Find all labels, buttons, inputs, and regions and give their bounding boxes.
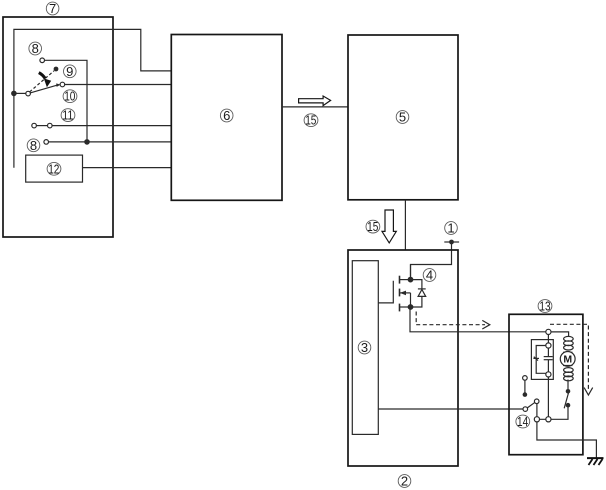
label 15 (down) (366, 220, 380, 234)
wire terminal to choke (551, 332, 569, 336)
wire lower contact to bottom rail (540, 408, 568, 420)
choke coil (top) (564, 336, 574, 350)
label 3 (358, 340, 371, 355)
svg-text:8: 8 (30, 138, 37, 153)
wire 12 to block 6 (83, 167, 172, 169)
label 11 (61, 109, 75, 123)
motor switch upper contact (566, 389, 571, 394)
switch 14 pivot (523, 407, 528, 412)
svg-text:15: 15 (367, 220, 378, 234)
svg-text:1: 1 (447, 221, 454, 236)
motor M (560, 352, 575, 367)
spare contact dot (523, 392, 528, 397)
source junction dot (408, 305, 413, 310)
wire contact to bottom terminal (536, 404, 538, 417)
terminal (motor feed) (546, 329, 551, 334)
label 7 (46, 1, 59, 16)
contact 8 top (40, 58, 45, 63)
suppressor terminal bottom (546, 372, 551, 377)
svg-text:4: 4 (426, 268, 433, 283)
wire drain up to node 1 (410, 265, 412, 280)
svg-text:M: M (563, 354, 572, 366)
svg-text:9: 9 (66, 64, 73, 79)
contact 11 pair (32, 123, 52, 128)
svg-text:3: 3 (361, 340, 368, 355)
label 15 (304, 114, 318, 128)
svg-text:10: 10 (64, 90, 75, 104)
block 5 (348, 35, 458, 200)
body diode (411, 280, 426, 307)
svg-text:12: 12 (48, 162, 59, 176)
wire block 3 to switch 14 (378, 408, 523, 410)
node 1 terminal (444, 240, 459, 245)
dashed control arrow (to 13) (416, 312, 485, 325)
block 13 (509, 314, 583, 454)
MOSFET drain lead (400, 279, 411, 281)
rotation arrow (39, 73, 51, 88)
wire to ground (537, 422, 597, 458)
wire terminal to suppressor (547, 335, 549, 343)
svg-text:15: 15 (305, 114, 316, 128)
wire suppressor to bottom rail (547, 377, 549, 417)
wire node 1 to drain (411, 242, 452, 280)
switch 14 blade (527, 402, 535, 408)
svg-text:6: 6 (223, 108, 230, 123)
choke coil (bottom) (564, 368, 574, 381)
wire source output to block 13 (410, 307, 546, 332)
switch throw 9 (dashed alternate position) (30, 67, 59, 92)
label 5 (396, 110, 409, 125)
wire common to pivot (14, 92, 26, 94)
wire choke to motor switch (567, 380, 569, 390)
ground (587, 458, 604, 465)
label 8 (bottom) (27, 138, 40, 153)
wire common bus (14, 29, 171, 167)
label 4 (423, 268, 436, 283)
wire contact 10 to block 6 (65, 84, 172, 86)
label 10 (63, 90, 77, 104)
switch blade (position 10) (30, 83, 60, 93)
wire gate (378, 281, 393, 303)
MOSFET body arrow (400, 291, 411, 307)
label 12 (47, 162, 61, 176)
wire block 5 to block 2 (404, 200, 406, 250)
svg-text:7: 7 (49, 1, 56, 16)
label 8 (top) (29, 41, 42, 56)
svg-text:2: 2 (401, 474, 408, 489)
svg-text:8: 8 (32, 41, 39, 56)
contact 10 (60, 82, 65, 87)
component 12 box (26, 155, 83, 182)
svg-text:5: 5 (399, 110, 406, 125)
label 2 (398, 474, 411, 489)
block 6 (171, 35, 282, 201)
MOSFET 4 channel (399, 276, 401, 312)
wire contact 8 top to junction (44, 60, 87, 142)
block 7 (combination switch unit) (3, 17, 113, 237)
signal arrow 15 (right) (299, 96, 331, 106)
svg-text:14: 14 (517, 415, 528, 429)
label 9 (64, 64, 77, 79)
wire block 6 to block 5 (282, 106, 348, 108)
contact 8 bottom (44, 140, 49, 145)
svg-text:11: 11 (62, 109, 73, 123)
dashed return arrow (550, 324, 588, 390)
breaker branch (533, 346, 545, 374)
label 1 (445, 221, 458, 236)
MOSFET source lead (400, 306, 411, 308)
motor switch lower contact (566, 403, 571, 408)
suppressor terminal top (546, 343, 551, 348)
block 2 (348, 250, 458, 466)
junction dot (switch common) (12, 91, 16, 95)
terminal (bottom mid) (546, 417, 551, 422)
label 14 (516, 415, 530, 429)
label 13 (538, 300, 552, 314)
junction dot (85, 140, 89, 144)
spare contact terminal (523, 376, 528, 393)
drain junction dot (408, 277, 413, 282)
block 3 (352, 261, 378, 435)
wire 11 to block 6 (52, 125, 171, 127)
svg-text:13: 13 (539, 300, 550, 314)
capacitor (544, 348, 553, 372)
terminal (bottom left) (534, 417, 539, 422)
switch 14 contact (534, 399, 539, 404)
noise suppressor box (531, 340, 553, 380)
label 6 (220, 108, 233, 123)
switch pivot (26, 91, 31, 96)
motor switch blade (564, 393, 568, 409)
wire 8 bottom to block 6 (48, 141, 171, 143)
signal arrow 15 (down) (382, 210, 396, 243)
